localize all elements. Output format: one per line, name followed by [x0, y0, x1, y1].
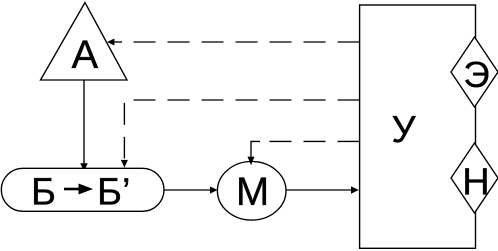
svg-text:Э: Э — [463, 54, 489, 95]
arrowhead into A right side — [107, 39, 114, 46]
svg-text:М: М — [236, 170, 269, 214]
wire A to B (solid vertical) — [83, 80, 85, 164]
triangle A — [41, 3, 128, 81]
thick arrow between B and B' — [64, 188, 80, 191]
stadium B->B' — [1, 168, 164, 211]
diamond N — [451, 143, 498, 213]
arrowhead into M left — [210, 186, 218, 193]
wire B to M (solid horizontal) — [165, 189, 212, 191]
svg-text:Б’: Б’ — [97, 172, 130, 214]
wire M to U (solid horizontal) — [286, 189, 352, 191]
arrowhead into B (dashed wire) — [121, 160, 128, 168]
dashed wire U to B (y=100, corner at x=124.4) — [124, 100, 359, 159]
arrowhead into B (solid) — [80, 163, 88, 171]
arrowhead into U left — [351, 186, 359, 193]
svg-text:Н: Н — [462, 161, 489, 203]
dashed wire U to A (feedback, y=42) — [124, 41, 360, 43]
ellipse M — [217, 162, 286, 221]
diamond E — [451, 37, 498, 107]
svg-text:У: У — [392, 109, 417, 151]
svg-text:А: А — [71, 33, 98, 77]
dashed wire U to M (y=141.4, corner at x=251) — [259, 140, 360, 142]
block U (rectangle) — [360, 5, 476, 248]
svg-text:Б: Б — [31, 172, 56, 214]
arrowhead into M top — [248, 157, 255, 166]
